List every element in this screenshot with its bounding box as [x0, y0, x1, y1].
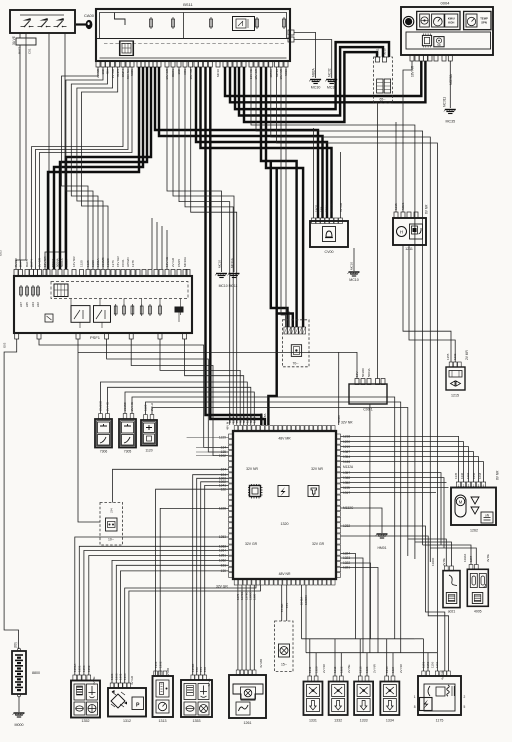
- connector 15 fan icon: [279, 644, 290, 657]
- svg-text:1214: 1214: [385, 666, 389, 673]
- svg-text:SPN: SPN: [481, 21, 487, 25]
- cluster speedometer gauges: [417, 11, 460, 29]
- wire ECU bottom to 1261: [249, 585, 251, 670]
- ignition switch CA00 box: [10, 10, 75, 33]
- svg-text:6V NR: 6V NR: [425, 204, 429, 214]
- connector 65 dashed box: [374, 57, 393, 103]
- svg-text:1548A: 1548A: [300, 597, 304, 605]
- BS11 pin wire labels: [96, 68, 288, 80]
- ignition coil 1334 box: [380, 682, 399, 716]
- wire 1211 to 1215 a: [403, 245, 451, 362]
- svg-text:2V MR: 2V MR: [166, 667, 170, 677]
- ECU injector icon: [308, 486, 319, 497]
- svg-text:32V NR: 32V NR: [311, 467, 323, 471]
- svg-text:1322: 1322: [340, 666, 344, 673]
- 1334 injector icon: [383, 699, 396, 712]
- wire ECU bottom to 1312 d: [125, 585, 256, 683]
- stub wire PSF1 pin 157: [156, 222, 158, 269]
- fuse F1 in BS11: [150, 17, 152, 29]
- corridor wire BS11 to ground MC10: [167, 67, 222, 272]
- 1312 bridge icon: [111, 694, 125, 708]
- wire ECU 1323 to bus: [341, 558, 364, 653]
- svg-text:18V NR: 18V NR: [411, 65, 415, 77]
- 4005 icon: [470, 574, 486, 604]
- harness BS11 to 65 connector wire 1: [235, 42, 389, 109]
- svg-text:1540A: 1540A: [280, 604, 284, 612]
- svg-text:4V MR: 4V MR: [259, 658, 263, 668]
- wire ECU 1226 to 1313: [160, 508, 228, 675]
- PSF1 pin labels: [14, 255, 187, 267]
- wire cluster to 1211: [403, 61, 412, 212]
- svg-text:1212: 1212: [333, 666, 337, 673]
- wire ECU 1321 to bus: [341, 568, 379, 653]
- wire C001 to bottom bus: [369, 404, 371, 653]
- wire ECU 122 to 1313: [156, 489, 229, 675]
- 1261 pin row: [236, 670, 256, 675]
- bus H1 feed: [394, 638, 396, 640]
- 1261 fan assembly icon: [233, 684, 263, 700]
- svg-text:TEMP: TEMP: [480, 16, 488, 20]
- svg-text:1352: 1352: [82, 719, 90, 723]
- connector 70 pin strip: [284, 327, 306, 334]
- 1313 wire labels: [154, 661, 170, 677]
- fuse/relay box PSF1: [14, 276, 192, 333]
- svg-text:1162: 1162: [435, 661, 439, 668]
- wire 7305 a to ECU: [125, 392, 254, 425]
- svg-text:1351A: 1351A: [96, 258, 100, 267]
- svg-text:MC10: MC10: [349, 278, 359, 282]
- stub wire PSF1 pin 167: [166, 230, 168, 269]
- 1313 gauge icon: [156, 700, 169, 713]
- 1353 pin row: [191, 675, 207, 680]
- svg-text:1352: 1352: [87, 665, 91, 672]
- svg-text:16V NR: 16V NR: [72, 256, 76, 267]
- wire ECU 104 to connector 10: [113, 469, 229, 502]
- wire BS11 pin to PSF1 a: [62, 67, 99, 269]
- svg-text:MC311: MC311: [443, 97, 447, 107]
- svg-text:H: H: [400, 230, 403, 235]
- svg-text:1376: 1376: [111, 260, 115, 267]
- sensor 7305: [119, 419, 136, 448]
- svg-text:P: P: [136, 703, 140, 709]
- svg-text:BHF4: BHF4: [30, 259, 34, 267]
- wire riser 1175 a: [423, 639, 425, 671]
- wire ECU bottom to bus H1: [301, 585, 303, 639]
- svg-text:1262: 1262: [470, 529, 478, 533]
- svg-text:5010: 5010: [383, 48, 387, 55]
- 1262 pin wire labels: [454, 470, 499, 480]
- 1331 fan icon: [306, 685, 319, 697]
- 1211 pump icon: [410, 224, 423, 239]
- 1334 pin row: [385, 676, 395, 681]
- wire vertical to a021 b: [415, 542, 452, 566]
- svg-text:5030D: 5030D: [361, 367, 365, 377]
- svg-text:G03: G03: [0, 250, 2, 256]
- svg-text:1151: 1151: [422, 661, 426, 668]
- svg-text:BHF1: BHF1: [18, 46, 22, 54]
- 1211 H icon: [397, 227, 407, 237]
- wire BS11 pin to PSF1 g: [36, 67, 129, 269]
- svg-text:MC10: MC10: [217, 260, 221, 268]
- svg-text:1322: 1322: [343, 561, 350, 565]
- cluster lower indicator blocks: [406, 32, 491, 49]
- CV00 pin row: [312, 218, 343, 224]
- svg-text:7305: 7305: [124, 450, 132, 454]
- svg-text:3V BE: 3V BE: [486, 554, 490, 562]
- svg-text:48V MR: 48V MR: [278, 437, 291, 441]
- stub wire PSF1 pin 162: [161, 226, 163, 269]
- wire ECU bottom to bus H2: [305, 585, 307, 653]
- harness BS11 to 65 connector wire 2: [239, 47, 383, 115]
- 1211 pin row: [394, 212, 418, 218]
- svg-text:PSF1: PSF1: [90, 335, 101, 340]
- stub wire PSF1 pin 152: [151, 218, 153, 269]
- 1175 pin row: [422, 671, 451, 676]
- wire riser 1175 b: [427, 653, 429, 671]
- 1352 pin row: [73, 675, 91, 680]
- BS11 bottom pin row: [96, 61, 288, 67]
- svg-text:32V GR: 32V GR: [245, 542, 258, 546]
- 1353 resistor icon: [184, 684, 196, 700]
- BS11 inner step notch: [115, 13, 126, 26]
- svg-text:MC30: MC30: [311, 86, 321, 90]
- wire CA00 pin1 to PSF1: [19, 33, 21, 38]
- wire ECU 1218 to 1262: [341, 436, 459, 482]
- wire ECU bottom to connector 15 b: [286, 585, 288, 621]
- wire riser 1332 a: [334, 639, 336, 676]
- svg-text:J34: J34: [110, 508, 114, 513]
- 1352 fan cross icon: [87, 702, 98, 715]
- wire ECU 1368 stub: [341, 478, 445, 548]
- wire BS11 pin to PSF1 c: [71, 67, 107, 269]
- harness BS11 to PSF1 wire 2: [54, 67, 143, 269]
- wire riser 1331 a: [309, 639, 311, 676]
- switch 1120: [141, 420, 157, 446]
- svg-text:HF7: HF7: [19, 302, 23, 308]
- wire ECU 1357 stub: [341, 473, 442, 545]
- svg-text:4V GR: 4V GR: [441, 670, 445, 680]
- buzzer CV00 box: [310, 221, 348, 247]
- instrument cluster 0004 box: [401, 7, 493, 55]
- svg-text:(80): (80): [13, 642, 17, 648]
- 1313 sensor icon: [156, 680, 169, 697]
- BS11 partition: [183, 13, 185, 39]
- ECU right pin column: [336, 434, 341, 577]
- wire vertical to 4005 b: [430, 548, 476, 565]
- svg-text:oN: oN: [485, 514, 490, 518]
- bus H1: [302, 638, 415, 640]
- harness BS11 to 70 connector wire 1: [261, 67, 297, 327]
- svg-text:KM/U: KM/U: [448, 16, 455, 20]
- unit 1312 box: [108, 688, 146, 717]
- CV00 bell icon: [323, 227, 336, 242]
- relay 1175 box: [418, 676, 461, 715]
- PSF1 connector grid icon: [54, 284, 68, 297]
- wire to ground MC10: [353, 248, 355, 271]
- ground M000: [13, 713, 25, 727]
- svg-text:CC01: CC01: [121, 259, 125, 267]
- svg-text:1351: 1351: [78, 665, 82, 672]
- wire ECU 1302 to 1353: [201, 482, 229, 675]
- svg-text:1361: 1361: [154, 661, 158, 668]
- ECU bottom pin row: [234, 580, 335, 586]
- svg-text:1363: 1363: [466, 472, 470, 479]
- svg-text:BS11: BS11: [183, 2, 193, 7]
- svg-text:4V GR: 4V GR: [130, 675, 134, 685]
- connector 65 pins: [375, 57, 386, 62]
- svg-text:1213: 1213: [358, 666, 362, 673]
- svg-text:1324: 1324: [343, 552, 350, 556]
- svg-text:1120: 1120: [145, 449, 152, 453]
- 1312 wire labels: [110, 673, 134, 685]
- BS11 internal dashed bus: [104, 43, 284, 45]
- PSF1 top pin row: [14, 270, 190, 276]
- switch contacts inside CA00: [20, 15, 67, 27]
- wire BS11 pin to PSF1 e: [82, 67, 118, 269]
- 1175 coil icon: [420, 684, 456, 711]
- ignition coil 1331 box: [303, 682, 322, 716]
- harness BS11 to ECU wire 1: [206, 67, 262, 425]
- wire ECU 1362 to 1312: [112, 560, 229, 683]
- harness BS11 to ECU wire 2: [210, 67, 265, 425]
- svg-text:150: 150: [203, 667, 207, 672]
- PSF1 bottom pin row: [15, 333, 187, 339]
- svg-text:5003A: 5003A: [51, 258, 55, 267]
- ground MC32: [325, 80, 337, 90]
- 1215 icon: [449, 371, 462, 387]
- wire CA00 pin1b: [16, 45, 20, 269]
- connector 70 dashed box: [283, 320, 310, 367]
- svg-text:BHF5: BHF5: [25, 259, 29, 267]
- ECU chip icon: [248, 484, 263, 499]
- svg-text:1175: 1175: [436, 719, 444, 723]
- connector 15 dashed box: [275, 621, 293, 672]
- wire ECU bottom to connector 15 a: [281, 585, 283, 621]
- svg-text:1357: 1357: [469, 555, 473, 562]
- wire ECU 1364 to 1352: [84, 551, 229, 676]
- ignition coil 1333 box: [354, 682, 373, 716]
- BS11 inner bottom line: [100, 57, 287, 59]
- svg-text:M000: M000: [15, 723, 24, 727]
- wire CA00 pin4 to PSF1: [45, 33, 65, 269]
- fuse F3 in BS11: [210, 17, 212, 29]
- svg-text:2: 2: [464, 695, 466, 699]
- svg-text:1215: 1215: [451, 394, 459, 398]
- 1262 resistor triangles: [471, 497, 479, 514]
- 1312 pin row: [110, 683, 131, 688]
- 1215 pin row: [449, 362, 461, 367]
- connector 10 icon: [106, 518, 118, 531]
- wire ECU 1353 to 1352: [75, 537, 229, 675]
- wire ECU right to 1175 c: [341, 526, 445, 671]
- svg-text:CV00: CV00: [325, 250, 334, 254]
- wire ECU 1446 to 1262: [341, 462, 484, 482]
- svg-text:151: 151: [285, 603, 289, 608]
- svg-text:1366A: 1366A: [463, 554, 467, 562]
- ground MC10 left: [215, 274, 227, 278]
- svg-text:16V VE: 16V VE: [165, 257, 169, 267]
- wire CA00 pin2b: [21, 45, 27, 269]
- svg-text:1364: 1364: [123, 673, 127, 680]
- svg-text:MC10: MC10: [349, 262, 353, 270]
- svg-text:1325: 1325: [86, 260, 90, 267]
- svg-text:HF4: HF4: [31, 302, 35, 308]
- svg-text:8V NR: 8V NR: [14, 257, 18, 267]
- svg-text:2135/B: 2135/B: [101, 257, 105, 267]
- wire vertical to a021 a: [408, 539, 447, 566]
- svg-text:1232: 1232: [453, 353, 457, 360]
- nest wire 3: [131, 339, 228, 456]
- unit 1313 box: [153, 676, 174, 717]
- svg-text:MC35: MC35: [446, 120, 456, 124]
- svg-text:3A VE: 3A VE: [12, 36, 16, 45]
- wire riser 1334 a: [386, 639, 388, 676]
- fuse F4 in BS11: [256, 17, 258, 29]
- svg-text:CA00: CA00: [84, 13, 95, 18]
- svg-text:1362: 1362: [158, 661, 162, 668]
- blower unit 1262 box: [451, 488, 496, 526]
- wire BS11 to ground MC30: [294, 33, 316, 79]
- svg-text:M132A: M132A: [343, 465, 354, 469]
- wire riser 1332 b: [340, 653, 342, 676]
- svg-text:32V NR: 32V NR: [341, 421, 353, 425]
- svg-text:1382D: 1382D: [106, 257, 110, 267]
- connector 70 icon: [291, 345, 301, 357]
- sensor 1215 box: [446, 367, 465, 390]
- wire BS11 pin to PSF1 h: [40, 67, 133, 269]
- 1262 motor icon: [455, 495, 466, 517]
- sensor 7306: [95, 419, 112, 448]
- wire CA00 pin2 to PSF1: [25, 33, 27, 38]
- wire riser 1333 a: [359, 639, 361, 676]
- svg-text:1332: 1332: [334, 719, 342, 723]
- svg-text:C01: C01: [28, 48, 32, 54]
- 1333 injector icon: [357, 699, 370, 712]
- harness BS11 to CV00 wire 3: [196, 67, 327, 218]
- svg-text:MC11A: MC11A: [230, 258, 234, 268]
- a021 4005 wire labels: [431, 554, 490, 566]
- wire BS11 pin to PSF1 f: [32, 67, 124, 269]
- svg-text:1331: 1331: [309, 719, 317, 723]
- svg-text:32V GR: 32V GR: [312, 542, 325, 546]
- connector C01 under CA00: [16, 38, 36, 45]
- ignition key icon: [76, 20, 92, 29]
- svg-text:M021: M021: [401, 202, 405, 210]
- wire ECU 1322 to bus: [341, 563, 371, 639]
- svg-text:1351A: 1351A: [73, 664, 77, 672]
- svg-text:1336: 1336: [460, 472, 464, 479]
- wire BS11 pin to PSF1 d: [77, 67, 113, 269]
- ground MC11 left: [228, 274, 240, 278]
- nest wire 2: [107, 339, 229, 452]
- unit 1261 box: [229, 675, 266, 718]
- svg-text:M: M: [459, 500, 463, 505]
- harness BS11 to 70 connector wire 2: [266, 67, 303, 327]
- BS11 right side pins: [288, 30, 294, 35]
- wire BS11 pin to PSF1 b: [66, 67, 103, 269]
- svg-text:10--: 10--: [108, 538, 114, 542]
- 4005 pins: [469, 565, 478, 570]
- svg-text:KOH: KOH: [448, 21, 454, 25]
- wire ECU 130 to 1312: [121, 571, 229, 683]
- 1331 injector icon: [306, 699, 319, 712]
- svg-text:1353: 1353: [193, 719, 201, 723]
- svg-text:2V BE: 2V BE: [442, 558, 446, 566]
- svg-text:1342: 1342: [253, 416, 257, 423]
- ground MC10: [348, 272, 360, 282]
- wire to 1211 a: [395, 122, 397, 212]
- svg-text:MB2A: MB2A: [311, 67, 315, 77]
- svg-text:1360D: 1360D: [431, 558, 435, 566]
- svg-text:a021: a021: [448, 610, 456, 614]
- harness BS11 to cluster wire 1: [225, 61, 421, 96]
- wire ECU bottom to 1261: [237, 585, 239, 670]
- svg-text:0004: 0004: [441, 1, 451, 6]
- harness BS11 to 65 connector wire 3: [244, 52, 377, 122]
- ECU left pin column: [229, 434, 234, 577]
- BS11 inner outline: [97, 13, 289, 39]
- svg-text:MO58A: MO58A: [449, 73, 453, 85]
- bus H2: [306, 652, 437, 654]
- ECU left leader stubs: [187, 437, 229, 455]
- wire ECU 1220 to 1262: [341, 442, 464, 482]
- svg-text:5004A: 5004A: [56, 258, 60, 267]
- wire battery to ground M000: [18, 697, 20, 712]
- svg-text:1323: 1323: [365, 666, 369, 673]
- svg-text:2V MR: 2V MR: [465, 350, 469, 360]
- ground MC35: [444, 110, 456, 124]
- svg-text:HP02D: HP02D: [126, 256, 130, 267]
- svg-text:4V BE: 4V BE: [92, 676, 96, 685]
- a021 pins: [444, 566, 453, 571]
- svg-text:65--: 65--: [379, 98, 385, 102]
- harness BS11 to CV00 wire 4: [201, 67, 332, 218]
- svg-text:CM15: CM15: [177, 259, 181, 267]
- 1353 horn icon: [184, 702, 196, 715]
- svg-text:1156: 1156: [431, 661, 435, 668]
- wire thin to CV00 right pin: [340, 152, 342, 218]
- svg-text:1335: 1335: [454, 472, 458, 479]
- ECU lightning icon: [278, 486, 289, 497]
- svg-text:1312: 1312: [123, 719, 131, 723]
- wire ECU bottom to 1261: [245, 585, 247, 670]
- wire vertical to 4005 a: [423, 545, 471, 565]
- svg-text:5004A: 5004A: [367, 368, 371, 377]
- wire ECU 131 to 1312: [116, 565, 228, 683]
- harness BS11 to CV00 wire 1: [155, 67, 318, 218]
- ground HM01: [376, 534, 388, 538]
- PSF1 secondary fuses: [114, 304, 161, 316]
- svg-text:4V VE: 4V VE: [207, 678, 211, 687]
- 1332 fan icon: [332, 685, 345, 697]
- harness BS11 to PSF1 wire 3: [60, 67, 147, 269]
- wire PSF1 to battery 8800: [4, 339, 18, 649]
- cluster 0004 pin row: [410, 55, 452, 61]
- 1352 horn icon: [74, 702, 85, 715]
- svg-text:1328: 1328: [314, 666, 318, 673]
- wire ECU right to 1175 d: [341, 536, 449, 671]
- wire ECU 1341 to 1353: [205, 485, 229, 675]
- battery 8800: [12, 648, 26, 697]
- unit 1352 box: [71, 681, 100, 718]
- nest wire 4: [160, 339, 240, 425]
- wire ECU 1303 to 1353: [197, 478, 229, 675]
- svg-text:BEC8: BEC8: [65, 259, 69, 267]
- PSF1 small icon: [45, 314, 53, 322]
- BS11 connector grid icon: [120, 41, 134, 56]
- wire 7306 a to ECU: [101, 382, 248, 425]
- 1261 pigtail icon: [236, 702, 250, 715]
